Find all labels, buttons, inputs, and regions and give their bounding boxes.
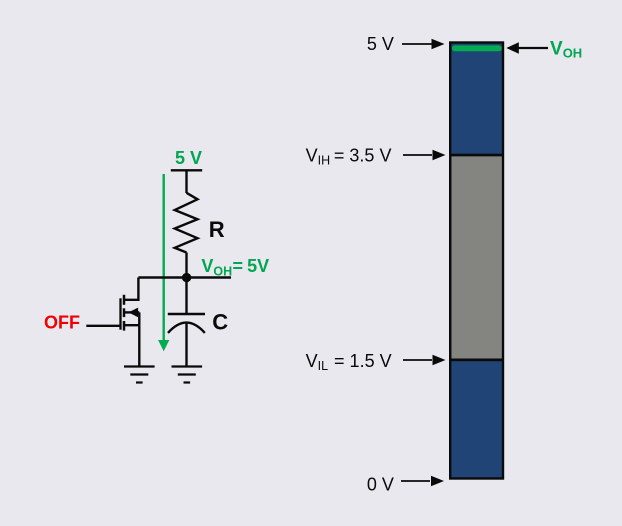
- separator VIH: [449, 154, 504, 157]
- power rail 5V: [171, 169, 202, 171]
- wire capacitor to ground: [185, 323, 187, 366]
- voltage bar: gray middle section: [452, 156, 502, 358]
- svg-text:OFF: OFF: [44, 313, 80, 333]
- capacitor C top plate: [168, 313, 205, 315]
- arrow VIH: [403, 150, 446, 161]
- svg-text:R: R: [209, 217, 225, 242]
- separator VIL: [449, 359, 504, 362]
- arrow 5 V: [402, 39, 445, 50]
- wire source to ground: [138, 325, 140, 366]
- wire resistor to node: [185, 253, 187, 278]
- transistor gate plate: [119, 298, 121, 329]
- svg-text:5 V: 5 V: [367, 34, 394, 54]
- arrow VOH (left pointing): [506, 42, 548, 54]
- transistor channel segments: [123, 295, 126, 331]
- svg-text:C: C: [212, 310, 228, 335]
- svg-text:VOH=5V: VOH=5V: [201, 256, 269, 279]
- ground (capacitor): [172, 367, 203, 383]
- voltage bar: blue body: [450, 43, 503, 479]
- node output wire: [138, 276, 231, 278]
- wire drain corner: [125, 278, 138, 300]
- arrow VIL: [403, 355, 446, 366]
- node dot: [182, 273, 191, 282]
- body arrow: [125, 308, 139, 318]
- green VOH cap: [452, 45, 502, 51]
- body to source wire: [138, 312, 140, 325]
- green discharge arrow: [158, 174, 169, 351]
- wire node to capacitor: [185, 278, 187, 315]
- svg-text:5 V: 5 V: [175, 148, 202, 168]
- ground (transistor): [124, 367, 155, 383]
- arrow 0 V: [401, 476, 444, 487]
- source stub: [125, 324, 139, 326]
- wire rail to resistor: [185, 170, 187, 193]
- resistor R: [175, 193, 198, 253]
- svg-text:0 V: 0 V: [367, 474, 394, 494]
- gate lead wire: [86, 325, 120, 327]
- capacitor C bottom curved plate: [168, 323, 205, 333]
